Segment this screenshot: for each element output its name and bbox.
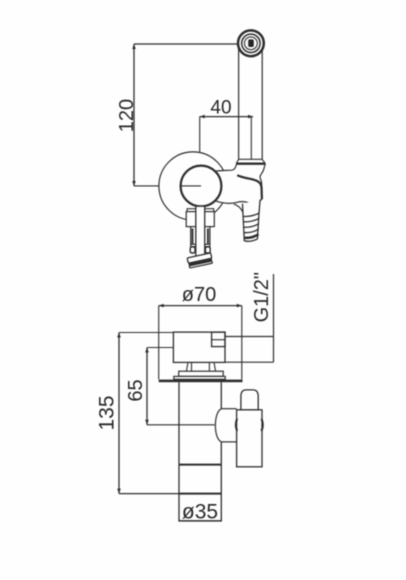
arrow d70 right	[237, 304, 242, 308]
arrow 120 bottom	[132, 181, 136, 186]
flange upper	[179, 371, 224, 376]
valve cartridge small rect	[212, 332, 225, 347]
knob circle (holder knob)	[181, 166, 222, 207]
pointer 135 top	[119, 332, 173, 334]
extension line d70 right	[241, 306, 243, 380]
spray tip dark band	[188, 258, 212, 266]
svg-text:ø35: ø35	[182, 501, 218, 524]
shower handle tube left edge	[238, 48, 240, 159]
spray shoulder dark strip left	[192, 229, 194, 244]
spray shoulder dark strip right	[207, 229, 209, 244]
extension line 40 right (tube axis)	[250, 117, 252, 159]
svg-text:135: 135	[96, 395, 119, 430]
dimension d70 line	[159, 305, 242, 307]
svg-text:G1/2": G1/2"	[251, 272, 273, 322]
shower head outer circle	[238, 30, 264, 56]
valve neck inner left	[191, 362, 193, 371]
dimension 120 vertical line	[133, 44, 135, 186]
shower handle tube right edge	[261, 48, 263, 159]
spray head upper blocks	[186, 212, 214, 227]
svg-text:40: 40	[210, 98, 231, 119]
shower head ring 2	[242, 34, 260, 52]
dimension 135 vertical line	[118, 333, 120, 494]
hose rib 4	[244, 229, 259, 233]
wall line thick	[159, 380, 243, 383]
flange base	[174, 376, 225, 379]
pipe left edge	[178, 382, 180, 521]
arrow 65 top	[145, 348, 149, 353]
valve handle knob	[241, 390, 258, 410]
spray tip upper band	[187, 253, 212, 263]
spray nub left	[190, 247, 195, 253]
hose rib 3	[244, 224, 259, 228]
wire ball bottom tangent	[221, 441, 236, 443]
pointer 65 bottom	[147, 424, 215, 426]
valve cartridge divider	[212, 339, 225, 341]
collar flare right	[262, 159, 265, 163]
extension line 40 left	[199, 117, 201, 153]
collar thick bottom line	[236, 162, 265, 164]
pointer 135 bottom	[119, 493, 179, 495]
hose bottom thick band	[244, 234, 258, 238]
shower head ring 3	[245, 37, 258, 50]
dimension 65 vertical line	[146, 348, 148, 425]
pipe section line 2 thick	[179, 493, 221, 495]
spray small step	[191, 244, 210, 246]
pipe section line 1 thick	[179, 464, 221, 466]
spray nub right	[205, 247, 210, 253]
wire ball top tangent	[221, 408, 236, 410]
spray head shoulder section	[191, 227, 210, 245]
holder bracket	[212, 164, 265, 204]
extension line d70 left	[158, 306, 160, 380]
shower head center plug	[248, 39, 254, 47]
svg-text:120: 120	[116, 99, 138, 132]
G1/2 leader vertical line	[273, 274, 275, 362]
arrow 65 bottom	[145, 420, 149, 425]
hose connector fillet	[234, 204, 243, 212]
arrow 135 top	[117, 333, 121, 338]
wire holder centerline	[134, 185, 201, 187]
spray central tube	[196, 206, 205, 258]
dimension 40 line	[200, 116, 253, 118]
spray tip bottom sliver	[189, 261, 212, 268]
pointer 65 top	[147, 347, 173, 349]
valve handle rect	[237, 410, 262, 467]
arrow d70 left	[159, 304, 164, 308]
arrow 135 bottom	[117, 489, 121, 494]
ball crescent left	[236, 419, 237, 431]
collar flare left	[237, 159, 239, 163]
bracket shoulder thick curve	[237, 175, 262, 199]
pipe right edge lower	[220, 442, 222, 521]
ball crescent right	[262, 419, 263, 431]
arrow 120 top	[132, 44, 136, 49]
valve neck left slant	[186, 362, 188, 371]
wire top reference line to shower head	[134, 43, 238, 45]
valve body box	[173, 332, 225, 362]
pipe bottom line	[178, 520, 222, 522]
arrow 40 left	[200, 115, 205, 119]
G1/2 pointer line upper	[226, 336, 274, 338]
ball joint bulge	[215, 409, 221, 442]
spray head step collar	[187, 209, 214, 212]
collar top line	[239, 158, 263, 160]
G1/2 pointer line lower	[226, 361, 274, 363]
spray tip group	[187, 253, 213, 268]
hose connector body	[243, 200, 261, 242]
svg-text:ø70: ø70	[182, 284, 216, 306]
pipe right edge upper	[220, 382, 222, 409]
svg-text:65: 65	[125, 379, 147, 401]
arrow 40 right	[248, 115, 253, 119]
valve neck right slant	[214, 362, 216, 371]
hose rib 1	[243, 213, 259, 217]
wire centerline into knob	[180, 185, 201, 187]
hose rib 2	[243, 218, 259, 222]
valve neck inner right	[208, 362, 210, 371]
wall plate circle (holder rosette)	[159, 152, 227, 220]
